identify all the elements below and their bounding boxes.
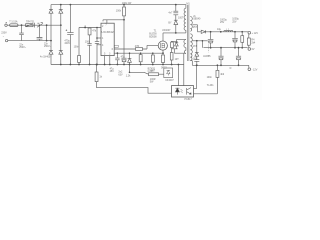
choke L2 TR4731	[26, 23, 35, 28]
resistor R15	[216, 65, 219, 77]
node opto rail	[178, 64, 180, 66]
bridge left leg wire	[50, 5, 52, 65]
node C5 rail	[123, 64, 125, 66]
rectifier diode D9	[198, 30, 249, 33]
OUT line y49	[114, 45, 158, 49]
svg-text:2: 2	[102, 25, 104, 28]
IC left pin2 stub	[97, 37, 101, 39]
resistor R11	[241, 32, 244, 48]
capacitor C10 1000u	[208, 32, 214, 48]
node rail bulk cap top	[70, 4, 72, 6]
wire X-cap right	[46, 25, 48, 40]
label C2	[85, 41, 91, 44]
snubber capacitor C8	[173, 11, 178, 15]
resistor R3 47k	[88, 28, 91, 44]
resistor R7 divider	[151, 53, 154, 64]
bulk capacitor C1 470u400V	[66, 5, 74, 65]
node FB dot	[84, 27, 86, 29]
svg-text:25V: 25V	[110, 70, 115, 73]
label C10 C11	[220, 18, 240, 25]
node x79 rail	[78, 64, 80, 66]
svg-text:47k: 47k	[92, 30, 97, 33]
feedback vertical wire x79	[78, 28, 80, 65]
svg-text:UF4007: UF4007	[165, 79, 174, 82]
svg-text:UF4007: UF4007	[162, 29, 171, 32]
node R11 top	[241, 31, 243, 33]
node C11 bottom	[234, 47, 236, 49]
node opto sec	[196, 64, 198, 66]
capacitor CX1 22n	[19, 25, 24, 40]
node D6 rail	[129, 64, 131, 66]
node CX2 top	[39, 24, 41, 26]
node CS cap	[117, 52, 119, 54]
node C13 top	[220, 47, 222, 49]
node C14 bottom	[238, 64, 240, 66]
MOSFET T1 circle	[158, 41, 167, 50]
labels below rail mid	[118, 67, 167, 78]
AC live terminal X1	[5, 23, 10, 27]
svg-text:+ 12V: + 12V	[252, 32, 259, 35]
opto right top wire	[194, 65, 197, 88]
label SB540	[193, 15, 201, 21]
primary ground rail	[51, 64, 184, 66]
capacitor C11 1000u	[232, 32, 238, 48]
varistor R0 diagonal	[37, 23, 43, 28]
capacitor CX2	[37, 25, 43, 40]
node D10 bottom rail	[196, 64, 198, 66]
cap C13 lower row	[218, 48, 223, 66]
svg-text:4n7: 4n7	[168, 11, 173, 14]
node R8 rail	[162, 64, 164, 66]
svg-text:100k: 100k	[116, 9, 122, 12]
node source CS	[162, 52, 164, 54]
node R10 rail	[171, 64, 173, 66]
terminal +12V	[248, 31, 251, 34]
node x97 line	[96, 27, 98, 29]
node C11 top	[234, 31, 236, 33]
node rail D4	[60, 64, 62, 66]
svg-text:T 3,15A: T 3,15A	[9, 21, 18, 24]
node R6 rail	[140, 64, 142, 66]
svg-text:3: 3	[109, 53, 111, 56]
wire x97 vertical	[96, 28, 98, 65]
IC top pin 7 stub	[106, 20, 108, 23]
fuse F1 T3,15A	[10, 24, 18, 27]
diode D6 1N4148	[128, 53, 132, 64]
svg-text:2k4: 2k4	[251, 42, 256, 45]
capacitor C6 2n2	[115, 53, 119, 64]
node R1 rail	[123, 4, 125, 6]
svg-text:230V: 230V	[1, 31, 7, 34]
svg-text:5: 5	[104, 53, 106, 56]
label L1	[217, 28, 230, 31]
label sec turns	[193, 26, 198, 61]
svg-text:1: 1	[102, 37, 104, 40]
IC bottom pin5	[104, 56, 106, 65]
svg-text:~: ~	[3, 35, 5, 38]
svg-text:D: D	[230, 67, 232, 70]
label 230V	[1, 31, 7, 38]
node R11 bottom	[241, 47, 243, 49]
opto right bottom wire	[194, 77, 218, 93]
aux return wire	[174, 53, 186, 85]
minus12 line	[190, 61, 249, 66]
node snubber drain	[175, 32, 177, 34]
svg-text:7: 7	[105, 24, 107, 27]
reference diode D10	[195, 41, 199, 60]
node 46 bottom	[46, 40, 48, 42]
label T1	[149, 29, 157, 38]
reference cap C12	[194, 60, 199, 66]
label R15	[207, 73, 225, 87]
resistor R2 on x79	[78, 56, 81, 63]
IC U1 UC3842	[101, 23, 114, 55]
svg-text:100k 2W: 100k 2W	[122, 2, 132, 5]
svg-text:15T: 15T	[193, 26, 198, 29]
drain line to primary	[163, 32, 186, 34]
CS line y53.2	[114, 52, 163, 54]
node R7 rail	[152, 64, 154, 66]
diode D2 top-right	[59, 9, 63, 13]
node AC2 at bridge	[50, 40, 52, 42]
svg-text:63V: 63V	[118, 73, 123, 76]
node A junction	[21, 24, 23, 26]
node VCC	[123, 19, 125, 21]
node R14 rail	[96, 64, 98, 66]
diode D3 bottom-left	[49, 50, 53, 54]
sec top tap	[192, 25, 198, 32]
diode D4 bottom-right	[59, 50, 63, 54]
node C14 top	[238, 47, 240, 49]
label CX2	[44, 42, 52, 48]
node zero feed	[202, 40, 204, 42]
resistor R1 100k startup	[123, 5, 126, 20]
node D6 top	[129, 52, 131, 54]
svg-text:PC817: PC817	[184, 98, 192, 100]
svg-text:10T: 10T	[175, 58, 180, 61]
node C10 bottom	[210, 47, 212, 49]
plus12 rail nodes	[210, 31, 212, 33]
node AC1 at bridge	[60, 24, 62, 26]
aux top tap	[176, 40, 186, 42]
svg-text:L1: L1	[226, 28, 229, 31]
IC right pin label box	[114, 45, 118, 47]
svg-text:BD508: BD508	[149, 35, 157, 38]
sec mid tap	[192, 40, 207, 42]
IC U1 part text	[101, 31, 114, 34]
node x97 pin	[96, 37, 98, 39]
label CX1	[19, 44, 27, 50]
tick above FB dot	[84, 25, 86, 27]
aux rectifier bottom line	[171, 41, 178, 53]
svg-text:4x 1N4007: 4x 1N4007	[40, 56, 52, 59]
resistor R10 right of mosfet	[170, 49, 173, 65]
resistor R6 pulldown	[139, 53, 142, 64]
IC left pin4 stub	[97, 44, 101, 46]
svg-text:1,2k: 1,2k	[126, 74, 131, 77]
opto top wire left	[177, 65, 179, 86]
dashed link	[207, 45, 209, 53]
svg-text:25V: 25V	[220, 21, 225, 24]
opto feed line	[130, 65, 164, 75]
IC bottom pin3	[109, 56, 111, 65]
svg-text:100n: 100n	[207, 76, 213, 79]
transformer core bars	[188, 5, 189, 61]
IC pin numbers	[102, 24, 114, 56]
zero volt line	[203, 47, 247, 49]
svg-text:M1: M1	[186, 3, 190, 6]
node snubber rail	[175, 4, 177, 6]
svg-text:47µ: 47µ	[121, 55, 126, 58]
transformer M1 primary winding	[184, 5, 186, 33]
node C6 rail	[117, 64, 119, 66]
svg-text:1k: 1k	[99, 76, 102, 79]
svg-text:TL431: TL431	[207, 84, 214, 87]
secondary winding top	[190, 17, 192, 32]
svg-text:100T: 100T	[178, 16, 184, 19]
aux diode D8	[175, 41, 179, 49]
label C1	[64, 39, 70, 45]
svg-text:250V~: 250V~	[44, 45, 52, 48]
bridge right leg wire	[60, 5, 62, 65]
node x97 rail	[96, 64, 98, 66]
sense resistor R8	[162, 53, 165, 64]
svg-text:4k7: 4k7	[151, 70, 156, 73]
optocoupler upper box	[164, 68, 173, 78]
opto LED wire from R96	[97, 82, 172, 94]
optocoupler U2 PC817	[172, 86, 194, 97]
node R7 top	[152, 52, 154, 54]
label snubber	[168, 11, 173, 24]
capacitor C3 on x97	[95, 42, 99, 44]
svg-text:47R: 47R	[135, 45, 140, 48]
capacitor C2 100n on x89	[87, 44, 91, 65]
terminal 0V	[248, 48, 251, 51]
svg-text:25V: 25V	[232, 20, 237, 23]
node rail D2	[60, 4, 62, 6]
svg-text:6: 6	[112, 48, 114, 51]
inductor L1	[224, 30, 233, 31]
svg-text:4: 4	[102, 44, 104, 47]
secondary winding bottom	[190, 34, 192, 61]
wire AC top	[18, 24, 61, 26]
svg-text:100n: 100n	[85, 41, 91, 44]
aux resistor R9	[171, 41, 174, 49]
labels caps near IC bottom	[110, 67, 115, 73]
node mid tap	[196, 40, 198, 42]
label R12	[251, 39, 256, 45]
node L1 left	[220, 31, 222, 33]
node x89 rail	[89, 64, 91, 66]
node R15 top	[217, 64, 219, 66]
svg-text:SB540: SB540	[193, 18, 201, 21]
FB line to IC	[79, 27, 101, 29]
node 46 top	[46, 24, 48, 26]
snubber diode D7	[174, 20, 178, 24]
svg-text:5W: 5W	[150, 81, 154, 84]
AC neutral terminal X2	[5, 39, 51, 41]
terminal -12V	[248, 65, 251, 70]
node opto feed	[129, 72, 131, 74]
right edge resistor R12	[247, 34, 250, 48]
diode D1 top-left	[49, 9, 53, 13]
node C13 bottom	[220, 64, 222, 66]
MOSFET drain wire	[162, 33, 164, 41]
svg-text:UC3842: UC3842	[101, 31, 114, 34]
transformer aux winding	[184, 40, 186, 54]
capacitor C5 47u VCC	[121, 58, 126, 64]
svg-text:- 12V: - 12V	[252, 69, 258, 72]
node bulk cap bottom	[70, 64, 72, 66]
snubber column wire	[175, 5, 177, 33]
VCC wire down	[123, 20, 125, 58]
svg-text:0V: 0V	[252, 48, 255, 51]
svg-text:250V~: 250V~	[19, 46, 27, 49]
VCC line	[103, 20, 124, 22]
svg-text:4k9: 4k9	[220, 73, 225, 76]
svg-text:BY: BY	[168, 21, 172, 24]
zero volt feed corner	[201, 41, 203, 48]
cap C14 lower row	[236, 48, 241, 66]
resistor R13	[149, 73, 159, 76]
node pin3 rail	[109, 64, 111, 66]
MOSFET source wire	[162, 50, 164, 53]
node pin5 rail	[104, 64, 106, 66]
node R6 top	[140, 52, 142, 54]
DC+ top rail	[51, 4, 186, 6]
svg-text:400V: 400V	[64, 42, 70, 45]
svg-text:10µ: 10µ	[217, 28, 222, 31]
label R13	[150, 70, 156, 84]
gate resistor R5	[136, 48, 143, 51]
svg-text:LM385: LM385	[203, 55, 211, 58]
resistor R14 1k	[95, 65, 98, 82]
svg-text:TR4731: TR4731	[26, 20, 35, 23]
